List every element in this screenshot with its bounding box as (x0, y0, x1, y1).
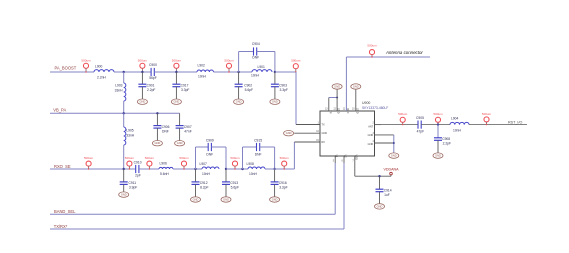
svg-text:33nH: 33nH (126, 133, 135, 137)
svg-text:2pF: 2pF (135, 173, 141, 177)
svg-text:L904: L904 (451, 116, 459, 120)
U900 refdes (362, 101, 370, 105)
ground right of U900 (389, 153, 399, 158)
svg-text:GND: GND (272, 198, 278, 202)
capacitor C902 (235, 72, 253, 99)
testpoint TP3 500um (172, 58, 182, 72)
wire VB1 branch down (123, 113, 125, 127)
pin 13 stub (325, 98, 329, 112)
svg-text:SKY13373-460LF: SKY13373-460LF (362, 106, 388, 110)
ground below C907 (175, 141, 185, 146)
svg-text:C909: C909 (206, 138, 214, 142)
svg-text:RXO_SE: RXO_SE (54, 164, 71, 169)
wire TX corner to pin1 (296, 124, 320, 126)
svg-text:C900: C900 (149, 63, 157, 67)
svg-text:5.6pF: 5.6pF (245, 88, 253, 92)
U900 left pin names (322, 124, 328, 145)
svg-text:10nH: 10nH (249, 172, 258, 176)
ground below C912 (191, 197, 201, 202)
wire RX row left (50, 168, 136, 170)
inductor L907 (200, 162, 220, 176)
wire tankA right vertical (225, 147, 227, 169)
ground above pin 12 (332, 84, 342, 89)
svg-text:500um: 500um (81, 58, 91, 62)
svg-text:3.3pF: 3.3pF (280, 88, 288, 92)
pin 16 GND flag wire (294, 131, 320, 133)
svg-text:3.3pF: 3.3pF (279, 186, 287, 190)
wire tankA top left (196, 146, 209, 148)
capacitor C904 (252, 42, 260, 60)
svg-text:56pF: 56pF (149, 76, 157, 80)
inductor L902 (197, 63, 214, 78)
capacitor C905 (416, 116, 424, 134)
node RR junction (437, 123, 439, 125)
node pin4 gnd junction (393, 142, 395, 144)
svg-text:DNF: DNF (252, 56, 259, 60)
capacitor C913 (222, 169, 239, 197)
ground below C906 (152, 141, 162, 146)
capacitor C907 (176, 113, 192, 140)
inductor L908 (247, 162, 266, 176)
svg-text:GND: GND (155, 141, 161, 145)
svg-text:L908: L908 (247, 162, 255, 166)
svg-text:500um: 500um (138, 58, 148, 62)
wire tankA left vertical (195, 147, 197, 169)
wire RX corner to pin15 (294, 141, 320, 143)
svg-text:GND: GND (272, 100, 278, 104)
svg-text:6: 6 (342, 160, 344, 162)
wire TX/RX* row (50, 228, 344, 230)
svg-text:DNF: DNF (162, 129, 169, 133)
testpoint TP8 500um (145, 156, 155, 170)
net label PA_BOOST (55, 65, 77, 70)
wire VB_PA row (50, 112, 180, 114)
note Antenna connector (385, 50, 423, 55)
wire tank1 top left (239, 51, 254, 53)
svg-text:GND: GND (337, 108, 340, 114)
wire tankB top left (243, 146, 257, 148)
svg-text:2.2pF: 2.2pF (443, 142, 451, 146)
wire tankB to corner (265, 168, 294, 170)
node tankA left junction (194, 168, 196, 170)
svg-text:GND: GND (334, 85, 340, 89)
svg-text:33nH: 33nH (115, 88, 124, 92)
pin 10 stub (352, 89, 356, 111)
testpoint TP7 500um (125, 156, 135, 170)
wire L904 to RST_IO (469, 124, 527, 126)
svg-text:GND: GND (391, 154, 397, 158)
svg-text:500um: 500um (280, 156, 290, 160)
wire RX corner up (293, 142, 295, 169)
svg-text:47nF: 47nF (184, 129, 192, 133)
wire tank1 to corner (275, 71, 296, 73)
wire pin13 to gnd net (329, 97, 337, 99)
svg-text:GND: GND (353, 85, 359, 89)
svg-text:VDDANA: VDDANA (384, 168, 400, 172)
svg-text:RX: RX (322, 141, 326, 144)
inductor L903 (115, 83, 126, 101)
svg-text:47pF: 47pF (417, 130, 425, 134)
svg-text:10nH: 10nH (251, 74, 260, 78)
svg-text:ANT: ANT (368, 126, 373, 129)
svg-text:U900: U900 (362, 101, 370, 105)
ground above pin 10 (351, 84, 361, 89)
wire C910 to L906 (139, 168, 159, 170)
net label RXO_SE (54, 164, 71, 169)
capacitor C908 (434, 125, 451, 153)
wire L903 to VB_PA (123, 101, 125, 113)
wire tankB top right (260, 146, 275, 148)
testpoint TP12 500um (367, 44, 377, 58)
wire tankB right vertical (274, 147, 276, 169)
svg-text:500um: 500um (230, 156, 240, 160)
wire pin7 to VDDANA (355, 175, 391, 177)
pin 3 GND wire (373, 133, 394, 135)
svg-text:L905: L905 (126, 129, 134, 133)
svg-text:C905: C905 (416, 116, 424, 120)
capacitor C915 (254, 138, 262, 156)
inductor L900 (94, 64, 114, 79)
svg-text:Antenna connector: Antenna connector (385, 50, 423, 55)
svg-text:GND: GND (121, 193, 127, 197)
svg-text:GND: GND (355, 108, 358, 114)
wire pin2 to C905 (381, 124, 418, 126)
ground below C913 (221, 197, 231, 202)
capacitor C914 (376, 176, 392, 204)
wire antenna horizontal (346, 56, 430, 58)
svg-text:L906: L906 (160, 161, 168, 165)
testpoint TP14 500um (433, 112, 443, 126)
svg-text:GND: GND (322, 132, 328, 135)
wire tank1 left vertical (238, 52, 240, 73)
svg-text:500um: 500um (367, 44, 377, 48)
ground flag left of pin 16 (284, 131, 294, 136)
svg-text:L903: L903 (115, 84, 123, 88)
node VDDANA junction (378, 175, 380, 177)
pin 15 number (316, 140, 319, 142)
net label RST_IO (508, 121, 522, 125)
svg-text:7: 7 (352, 160, 354, 162)
capacitor C906 (153, 113, 169, 140)
wire L900 to C900 (114, 71, 151, 73)
svg-text:BAND_SEL: BAND_SEL (54, 209, 76, 214)
svg-text:DNF: DNF (255, 153, 262, 157)
U900 bottom pin names (335, 155, 358, 160)
wire tank1 right vertical (274, 52, 276, 73)
inductor L901 (251, 65, 272, 78)
svg-text:GND: GND (177, 141, 183, 145)
node tankA right junction (225, 168, 227, 170)
wire C900 to L902 (154, 71, 197, 73)
node VB2 junction (156, 112, 158, 114)
node pin13 gnd junction (336, 97, 338, 99)
net label TX/RX* (54, 224, 68, 229)
pin 4 GND wire (373, 141, 394, 143)
capacitor C911 (120, 169, 138, 192)
svg-text:500um: 500um (125, 156, 135, 160)
U900 part number (362, 106, 388, 110)
capacitor C910 (134, 160, 142, 177)
wire L902 to tank1 (214, 71, 253, 73)
capacitor C917 (172, 72, 189, 99)
svg-text:GND: GND (377, 204, 383, 208)
wire tankA top right (211, 146, 226, 148)
svg-text:2.2nH: 2.2nH (97, 76, 106, 80)
net label BAND_SEL (54, 209, 76, 214)
wire antenna vertical (345, 57, 347, 111)
capacitor C903 (271, 72, 288, 99)
svg-text:1uF: 1uF (384, 193, 390, 197)
svg-text:TX/RX*: TX/RX* (54, 224, 68, 229)
node tank1 right junction (274, 71, 276, 73)
op-amp U900 body SKY13373-460LF (320, 111, 375, 156)
wire L906 to tankA (173, 168, 202, 170)
power VDDANA (384, 168, 400, 177)
node tankB right junction (273, 168, 275, 170)
svg-text:VB_PA: VB_PA (53, 107, 66, 112)
svg-text:L901: L901 (258, 65, 266, 69)
pin 7 stub (352, 156, 354, 176)
pin 6 stub (342, 156, 344, 163)
svg-text:2.2pF: 2.2pF (147, 88, 155, 92)
wire BAND_SEL up to pin5 (334, 163, 336, 214)
wire PA_BOOST row left (50, 71, 94, 73)
wire tank1 top right (257, 51, 275, 53)
svg-text:GND: GND (140, 100, 146, 104)
svg-text:500um: 500um (84, 156, 94, 160)
testpoint TP5 500um (291, 58, 301, 72)
wire TX1 branch down (123, 72, 125, 83)
testpoint TP10 500um (230, 156, 240, 170)
capacitor C900 (149, 63, 157, 80)
ground below C911 (119, 192, 129, 197)
testpoint TP9 500um (179, 156, 189, 170)
wire TX/RX* up to pin6 (343, 163, 345, 229)
svg-text:PA_BOOST: PA_BOOST (55, 65, 77, 70)
node tank1 left junction (237, 71, 239, 73)
svg-text:L907: L907 (200, 162, 208, 166)
capacitor C901 (138, 72, 155, 99)
wire C905 to L904 (421, 124, 450, 126)
net label VB_PA (53, 107, 66, 112)
svg-text:TP: TP (328, 110, 331, 114)
wire tankA to tankB (226, 168, 248, 170)
pin 12 stub (333, 89, 337, 111)
svg-text:GND: GND (236, 100, 242, 104)
svg-text:GND: GND (286, 131, 292, 135)
svg-text:C915: C915 (254, 138, 262, 142)
svg-text:5: 5 (333, 160, 335, 162)
svg-text:L902: L902 (198, 63, 206, 67)
pin 2 stub (373, 123, 381, 125)
ground below C901 (137, 99, 147, 104)
svg-text:500um: 500um (398, 112, 408, 116)
wire BAND_SEL row (50, 213, 335, 215)
svg-text:GND: GND (368, 134, 374, 137)
testpoint TP15 500um (482, 112, 492, 126)
ground below C914 (375, 204, 385, 209)
ground below C903 (270, 99, 280, 104)
node RX1 junction (123, 168, 125, 170)
svg-text:VDD: VDD (354, 155, 357, 160)
wire pins 3-4 down to ground (393, 135, 395, 153)
pin 5 stub (333, 156, 335, 163)
testpoint TP2 500um (138, 58, 148, 72)
node TX2 junction (141, 71, 143, 73)
svg-text:GND: GND (174, 100, 180, 104)
ground below C917 (171, 99, 181, 104)
svg-text:GND: GND (193, 198, 199, 202)
wire TX corner down (295, 72, 297, 125)
ground below C908 (433, 153, 443, 158)
testpoint TP1 500um (81, 58, 91, 72)
U900 top pin names (328, 108, 358, 114)
inductor L905 (124, 127, 135, 145)
testpoint TP11 500um (280, 156, 290, 170)
testpoint TP13 500um (398, 112, 408, 126)
svg-text:C904: C904 (252, 42, 260, 46)
inductor L904 (450, 116, 469, 132)
svg-text:DNF: DNF (206, 153, 213, 157)
svg-text:10nH: 10nH (202, 172, 211, 176)
svg-text:3.3pF: 3.3pF (181, 88, 189, 92)
ground below C916 (270, 197, 280, 202)
svg-text:L900: L900 (95, 64, 103, 68)
node tankB left junction (241, 168, 243, 170)
svg-text:10nH: 10nH (453, 129, 462, 133)
pin 11 stub RFC (343, 108, 346, 110)
inductor L906 (159, 161, 173, 176)
U900 right pin names (368, 126, 374, 146)
svg-text:500um: 500um (224, 58, 234, 62)
ground below C902 (234, 99, 244, 104)
node TX1 junction (123, 71, 125, 73)
svg-text:500um: 500um (433, 112, 443, 116)
svg-text:10nH: 10nH (198, 75, 207, 79)
svg-text:500um: 500um (291, 58, 301, 62)
svg-text:500um: 500um (179, 156, 189, 160)
svg-text:500um: 500um (172, 58, 182, 62)
wire tankB left vertical (242, 147, 244, 169)
node TX3 junction (175, 71, 177, 73)
capacitor C912 (192, 169, 209, 197)
pin 1 number (318, 122, 320, 124)
svg-text:TX: TX (322, 124, 326, 127)
svg-text:GND: GND (223, 198, 229, 202)
svg-text:500um: 500um (145, 156, 155, 160)
capacitor C916 (271, 169, 288, 197)
svg-text:C910: C910 (134, 160, 142, 164)
node VB1 junction (123, 112, 125, 114)
svg-text:5.6nH: 5.6nH (160, 172, 169, 176)
svg-text:3.9pF: 3.9pF (129, 186, 137, 190)
capacitor C909 (206, 138, 214, 156)
testpoint TP4 500um (224, 58, 234, 72)
wire L905 to RX row (123, 145, 125, 169)
testpoint TP6 500um (84, 156, 94, 170)
svg-text:RST_I/O: RST_I/O (508, 121, 522, 125)
svg-text:5.6pF: 5.6pF (231, 186, 239, 190)
svg-text:500um: 500um (482, 112, 492, 116)
svg-text:8.2pF: 8.2pF (200, 186, 208, 190)
svg-text:GND: GND (368, 143, 374, 146)
svg-text:GND: GND (435, 154, 441, 158)
